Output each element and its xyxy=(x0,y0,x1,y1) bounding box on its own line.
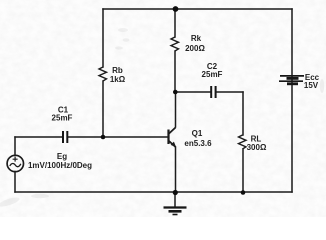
wire ground stem xyxy=(174,194,176,207)
svg-text:Rb: Rb xyxy=(112,66,123,75)
node emitter ground junction xyxy=(173,190,178,195)
resistor Rk xyxy=(171,37,179,51)
wire source bottom lead xyxy=(14,172,16,193)
wire emitter vertical xyxy=(175,147,177,192)
svg-text:Eg: Eg xyxy=(57,152,67,161)
svg-text:200Ω: 200Ω xyxy=(185,44,205,53)
battery Ecc xyxy=(279,76,304,84)
resistor RL xyxy=(239,135,247,149)
svg-text:1kΩ: 1kΩ xyxy=(110,75,126,84)
wire collector vertical xyxy=(175,92,177,127)
wire C2 left xyxy=(175,91,210,93)
svg-text:25mF: 25mF xyxy=(52,114,73,123)
svg-text:en5.3.6: en5.3.6 xyxy=(184,139,212,148)
svg-text:15V: 15V xyxy=(304,81,319,90)
wire RL bottom xyxy=(242,149,244,192)
wire C1 to base xyxy=(68,136,168,138)
capacitor C2 xyxy=(211,86,215,98)
node RL bottom junction xyxy=(241,190,246,195)
capacitor C1 xyxy=(63,131,67,143)
svg-text:1mV/100Hz/0Deg: 1mV/100Hz/0Deg xyxy=(28,161,92,170)
resistor Rb xyxy=(99,67,107,81)
wire Rk top xyxy=(174,9,176,37)
wire input to C1 xyxy=(15,136,62,138)
wire Rk to collector xyxy=(174,51,176,92)
svg-text:Rk: Rk xyxy=(191,34,202,43)
wire source top lead xyxy=(14,137,16,156)
wire right rail xyxy=(291,9,293,192)
node base junction xyxy=(101,135,106,140)
svg-text:300Ω: 300Ω xyxy=(247,143,267,152)
wire RL top xyxy=(242,92,244,135)
node top junction xyxy=(173,6,179,12)
svg-text:25mF: 25mF xyxy=(202,70,223,79)
wire top rail xyxy=(103,8,292,10)
node collector junction xyxy=(173,90,178,95)
source Eg xyxy=(7,155,23,171)
ground xyxy=(164,208,187,215)
wire C2 right xyxy=(217,91,244,93)
wire Rb bottom xyxy=(102,81,104,137)
wire bottom rail xyxy=(15,191,292,193)
svg-text:Q1: Q1 xyxy=(192,129,203,138)
transistor Q1 xyxy=(169,128,176,148)
wire Rb top xyxy=(102,9,104,67)
